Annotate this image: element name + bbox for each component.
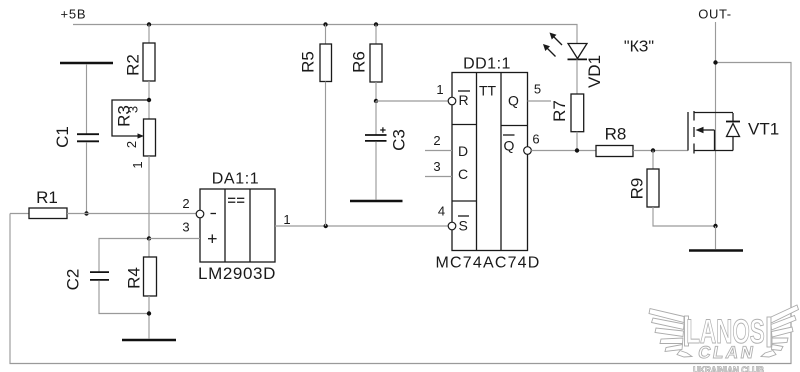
gate bar (687, 112, 689, 151)
node junction R5-out (324, 224, 328, 228)
op-amp DA1 box (196, 189, 275, 262)
svg-text:C2: C2 (64, 269, 83, 291)
wire C1 to R1 node (86, 142, 88, 214)
left wing curl (677, 351, 692, 358)
left wing feather 2 (652, 318, 685, 330)
transistor VT1 MOSFET (688, 111, 740, 154)
node junction R8-R9 (651, 148, 655, 152)
wire bar to C1 (86, 64, 88, 134)
left wing feather 5 (665, 345, 683, 352)
wire R7 to node (576, 132, 578, 151)
svg-text:DD1:1: DD1:1 (463, 56, 511, 73)
capacitor C2 (90, 271, 109, 273)
node junction R7-pin6 (575, 148, 579, 152)
wire rail to R5 (325, 25, 327, 45)
wire R3 wiper loop (112, 100, 147, 136)
svg-text:TT: TT (479, 83, 497, 99)
svg-text:6: 6 (532, 132, 539, 147)
right wing feather 2 (771, 316, 796, 331)
wire OUT to drain (715, 22, 717, 226)
svg-text:2: 2 (433, 133, 440, 148)
right wing feather 4 (772, 338, 788, 344)
node junction OUT (713, 60, 717, 64)
svg-text:CLAN: CLAN (697, 342, 758, 362)
node junction R4-C2 (147, 311, 151, 315)
wire R3 to node3 (148, 156, 150, 239)
wire node to C3 (375, 101, 377, 135)
svg-text:R8: R8 (605, 125, 627, 144)
node junction rail-R5 (323, 22, 327, 26)
antenna bar top of C1 (60, 62, 113, 65)
resistor R6 (370, 44, 382, 82)
resistor R2 (143, 43, 155, 81)
svg-text:R: R (459, 92, 469, 108)
body diode (726, 121, 740, 123)
left wing feather 1 (649, 309, 684, 323)
drain line (694, 112, 733, 114)
svg-text:3: 3 (126, 106, 141, 113)
svg-text:Q: Q (504, 138, 515, 154)
left wing root (685, 316, 689, 346)
svg-text:C1: C1 (53, 126, 72, 148)
flip-flop DD1 bubbles (448, 97, 456, 105)
right wing feather 1 (771, 305, 799, 323)
svg-text:1: 1 (436, 82, 443, 97)
svg-text:R2: R2 (124, 54, 143, 76)
node junction rail-R6 (374, 22, 378, 26)
wire source to ground (715, 226, 717, 249)
right wing feather 5 (772, 345, 784, 351)
resistor R8 (596, 146, 633, 157)
ground bar VT1 (689, 249, 743, 252)
svg-text:1: 1 (283, 212, 290, 227)
op-amp DA1 minus input (211, 213, 217, 215)
node junction node3 (147, 236, 151, 240)
wire node3 to C2 branch (99, 239, 149, 272)
node junction R2-R3 wiper (147, 98, 151, 102)
svg-text:R1: R1 (36, 188, 58, 207)
svg-text:+5B: +5B (61, 7, 87, 22)
node junction source-R9 (713, 224, 717, 228)
svg-text:R5: R5 (299, 51, 318, 73)
wire R8 to gate (633, 150, 688, 152)
wire R4 to ground (148, 296, 150, 339)
svg-text:"КЗ": "КЗ" (624, 39, 654, 56)
left wing feather 3 (655, 328, 684, 337)
svg-text:UKRAINIAN CLUB: UKRAINIAN CLUB (693, 364, 764, 372)
right wing curl (761, 351, 776, 358)
right wing feather 3 (772, 327, 794, 337)
wire DD1 pin6 to R8 (531, 150, 596, 152)
svg-text:2: 2 (182, 196, 189, 211)
resistor R7 (571, 94, 584, 132)
node junction rail-R2 (147, 22, 151, 26)
svg-text:3: 3 (182, 220, 189, 235)
channel dashes (693, 111, 695, 121)
svg-text:1: 1 (130, 161, 145, 168)
wire R9 to source node (653, 207, 716, 226)
flip-flop DD1 box (448, 73, 531, 251)
ground bar R4 (122, 339, 176, 342)
svg-text:VT1: VT1 (748, 120, 779, 139)
white mask under R7 label (551, 96, 571, 127)
svg-text:2: 2 (124, 141, 139, 148)
source line (694, 150, 733, 152)
wire C3 to ground (375, 142, 377, 200)
svg-text:LM2903D: LM2903D (198, 264, 276, 283)
ground bar C3 (350, 200, 403, 203)
svg-text:R7: R7 (550, 100, 569, 122)
resistor R4 (144, 257, 157, 296)
svg-text:S: S (459, 218, 468, 234)
LED VD1 (543, 33, 587, 60)
op-amp DA1 == symbol (228, 197, 235, 199)
wire feedback loop (10, 63, 791, 364)
wire R6 to node (375, 82, 377, 101)
op-amp DA1 pin2 bubble (196, 210, 204, 218)
bulk arrow (700, 129, 715, 131)
resistor R5 (320, 44, 332, 82)
wire DA1 out to DD1 S (275, 225, 448, 227)
wire DD1 pin2 stub (425, 150, 452, 152)
resistor R1 (29, 208, 67, 219)
wire node to DD1 pin1 (376, 100, 448, 102)
svg-text:5: 5 (534, 82, 541, 97)
wire node3 to pin3 (149, 238, 200, 240)
node junction R1-C1 (84, 211, 88, 215)
logo LANOS CLAN watermark (649, 305, 799, 357)
capacitor C3 (365, 134, 387, 136)
svg-text:4: 4 (438, 204, 445, 219)
svg-text:R4: R4 (125, 267, 144, 289)
wire C2 to bottom node (99, 281, 149, 314)
left wing feather 4 (660, 338, 683, 344)
wire R2 to R3 (148, 81, 150, 119)
wire feedback left (10, 213, 29, 215)
wire DD1 pin5 to R7 (528, 100, 572, 102)
label C3 plus (380, 129, 385, 131)
resistor R9 (647, 169, 659, 207)
LED arrows (552, 35, 563, 46)
svg-text:Q: Q (508, 93, 519, 109)
svg-text:VD1: VD1 (585, 55, 604, 88)
svg-text:DA1:1: DA1:1 (212, 171, 259, 188)
capacitor C1 (77, 133, 99, 135)
op-amp DA1 plus input (208, 238, 217, 240)
svg-text:OUT-: OUT- (698, 6, 731, 21)
wire R1 to pin2 (67, 213, 196, 215)
svg-text:D: D (458, 143, 468, 159)
svg-text:3: 3 (433, 159, 440, 174)
flip-flop DD1 pin R overline (458, 90, 470, 92)
wire +5V rail (73, 25, 577, 44)
right wing root (767, 317, 771, 347)
resistor R3 potentiometer (144, 119, 156, 156)
wire R5 to out wire (325, 82, 327, 227)
wire rail to R2 (148, 25, 150, 44)
node junction R6-C3-pin1 (374, 99, 378, 103)
wire LED to R7 (576, 59, 578, 94)
svg-text:R9: R9 (628, 178, 647, 200)
wire rail to R6 (375, 25, 377, 45)
wire node3 to R4 (148, 239, 150, 258)
svg-text:MC74AC74D: MC74AC74D (435, 255, 540, 272)
svg-text:C3: C3 (390, 129, 409, 151)
wire DD1 pin3 stub (425, 176, 452, 178)
wire node to R9 (652, 151, 654, 170)
svg-text:C: C (458, 166, 468, 182)
svg-text:R6: R6 (350, 51, 369, 73)
